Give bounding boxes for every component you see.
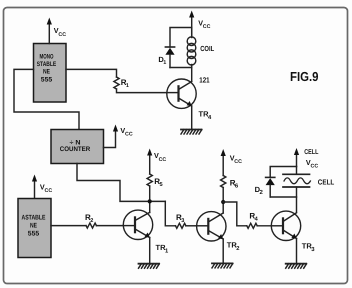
- wire R2 to TR1 base: [96, 225, 123, 227]
- power VCC arrow above cell (CELL supply): [294, 148, 319, 170]
- svg-text:COUNTER: COUNTER: [60, 146, 91, 153]
- ground under TR3: [286, 264, 307, 269]
- svg-text:NE: NE: [30, 223, 37, 230]
- power VCC arrow above R5: [147, 149, 166, 175]
- svg-text:CC: CC: [45, 188, 53, 194]
- svg-text:2: 2: [236, 245, 239, 252]
- wire astable to R2: [51, 225, 86, 227]
- svg-text:FIG.9: FIG.9: [290, 69, 319, 84]
- wire R5 to TR1 collector node: [149, 186, 151, 213]
- svg-text:1: 1: [126, 83, 129, 89]
- wire counter output to collector bus: [77, 164, 165, 202]
- resistor R3: [176, 213, 186, 229]
- wire D2 bottom branch: [270, 196, 296, 198]
- diode D1: [158, 47, 174, 68]
- svg-text:1: 1: [163, 60, 166, 66]
- svg-text:CC: CC: [234, 159, 242, 165]
- svg-text:CELL: CELL: [304, 149, 319, 156]
- wire monostable output left to counter: [14, 69, 79, 129]
- svg-text:CC: CC: [159, 157, 167, 163]
- svg-text:STABLE: STABLE: [37, 61, 57, 68]
- svg-text:ASTABLE: ASTABLE: [22, 215, 46, 222]
- power VCC arrow above astable: [32, 175, 52, 199]
- svg-text:MONO: MONO: [40, 54, 54, 61]
- power VCC arrow top (coil supply): [189, 11, 211, 36]
- svg-text:COIL: COIL: [200, 44, 214, 53]
- svg-text:CC: CC: [203, 24, 211, 30]
- transistor TR4: [167, 79, 212, 129]
- wire D2 top branch: [270, 167, 296, 178]
- svg-text:CELL: CELL: [318, 178, 335, 187]
- transistor TR2: [197, 212, 240, 263]
- wire monostable right to R1: [66, 69, 117, 77]
- inductor COIL: [187, 28, 214, 82]
- transistor TR1: [123, 210, 169, 263]
- wire D1 bottom branch: [170, 67, 192, 69]
- svg-text:3: 3: [181, 218, 184, 224]
- ground under TR1: [139, 264, 160, 269]
- resistor R2: [85, 213, 96, 228]
- transistor TR3: [271, 211, 315, 263]
- svg-text:2: 2: [90, 218, 93, 224]
- svg-text:CC: CC: [58, 32, 66, 38]
- power VCC arrow above R6: [221, 149, 243, 176]
- ground under TR2: [212, 263, 233, 268]
- power VCC arrow above monostable: [47, 18, 67, 44]
- battery CELL: [283, 167, 335, 213]
- diode D2: [255, 177, 275, 197]
- svg-text:CC: CC: [125, 132, 133, 138]
- wire R1 to TR4 base: [117, 89, 168, 93]
- svg-text:555: 555: [41, 76, 53, 83]
- wire D1 top branch: [170, 28, 192, 48]
- svg-text:NE: NE: [43, 69, 51, 76]
- ground under TR4: [181, 130, 202, 135]
- resistor R6: [221, 176, 239, 190]
- wire R4 to TR3 base: [257, 225, 271, 227]
- resistor R5: [147, 174, 163, 188]
- wire node to R3: [165, 201, 175, 225]
- svg-text:555: 555: [28, 231, 40, 238]
- astable NE555 block U3: [18, 199, 51, 258]
- divide-by-N counter block U2: [51, 130, 104, 164]
- junction node TR2 collector: [221, 200, 225, 204]
- svg-text:121: 121: [199, 76, 209, 85]
- resistor R1: [114, 77, 129, 89]
- svg-text:5: 5: [160, 182, 163, 188]
- resistor R4: [247, 211, 259, 228]
- wire R3 to TR2 base: [186, 225, 197, 227]
- power VCC arrow right of counter: [104, 125, 133, 148]
- wire node to R4: [223, 202, 247, 226]
- wire R6 to TR2 collector node: [222, 188, 224, 214]
- monostable NE555 block U1: [34, 44, 67, 103]
- junction node TR1 collector: [148, 199, 152, 203]
- svg-text:CC: CC: [311, 164, 319, 170]
